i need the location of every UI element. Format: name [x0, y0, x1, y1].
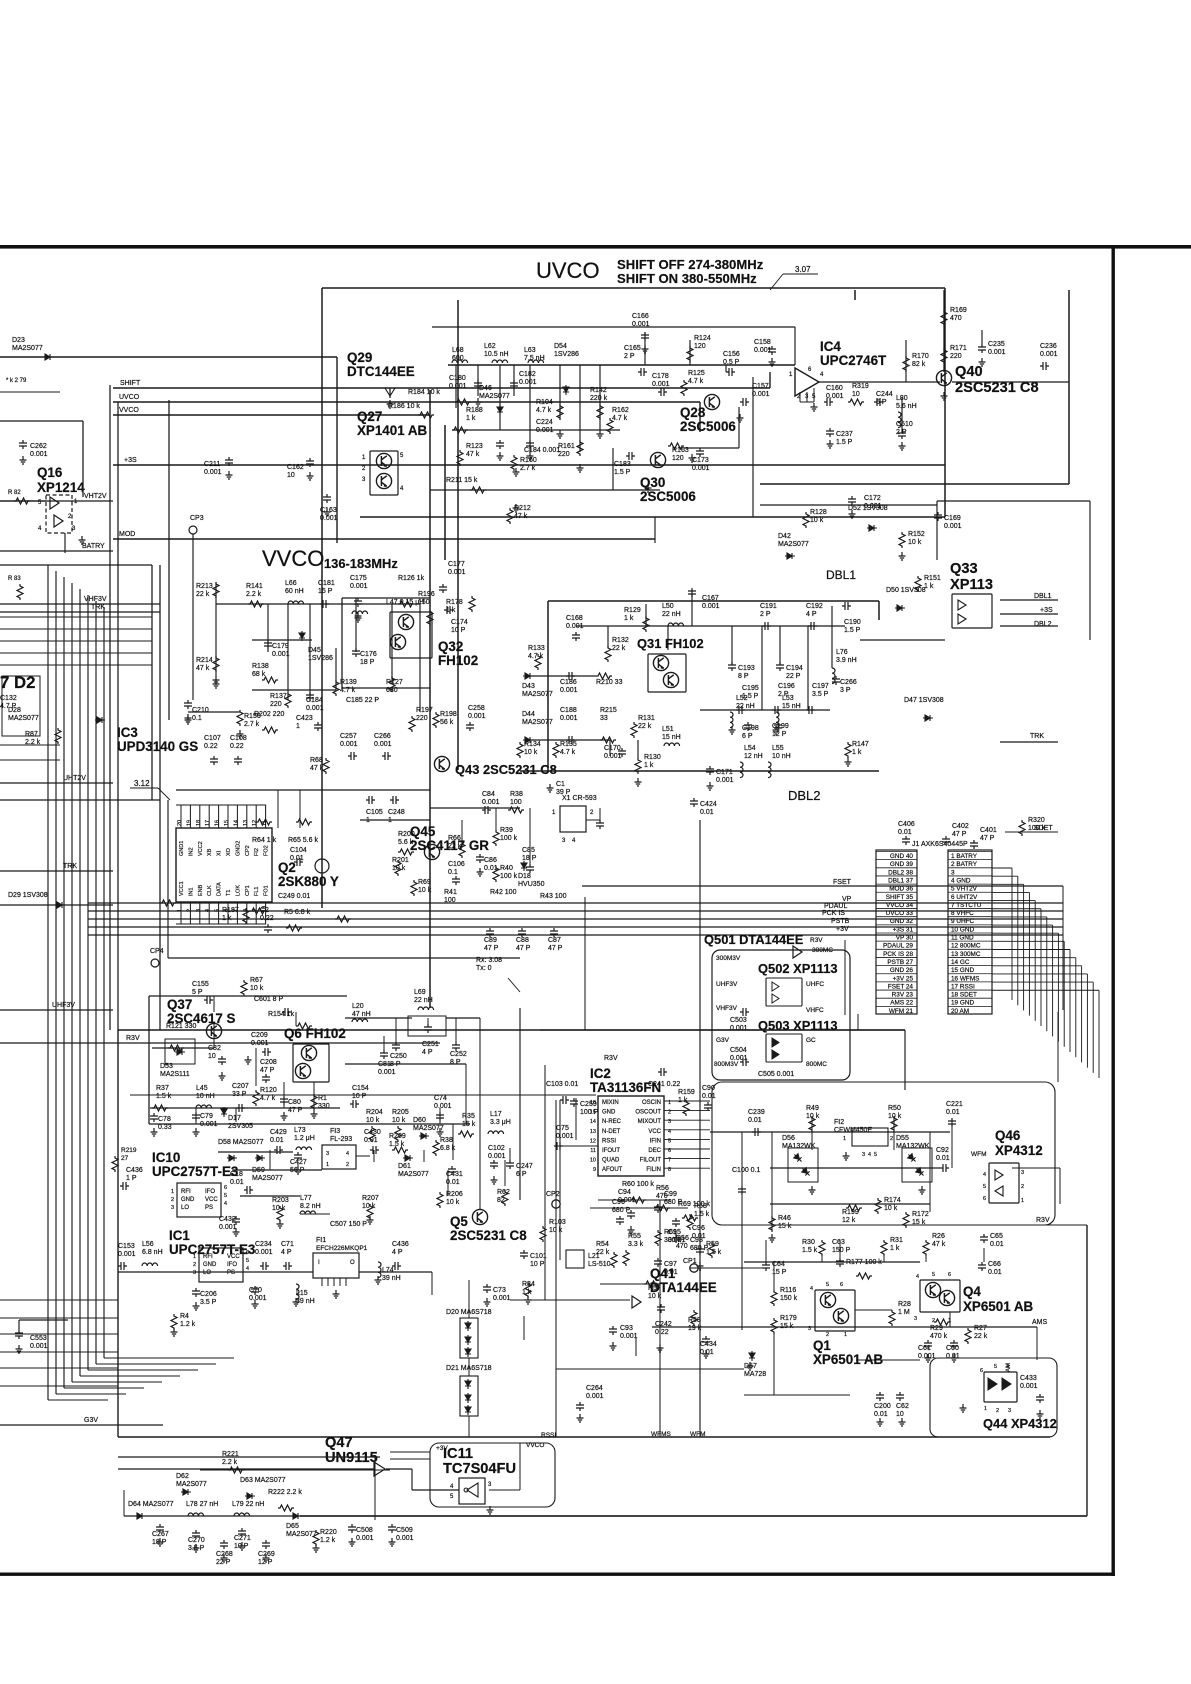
svg-text:10 k: 10 k: [446, 1199, 460, 1206]
svg-text:C183: C183: [614, 461, 631, 468]
svg-text:3.5 P: 3.5 P: [812, 691, 829, 698]
IC3 bottom pin wire: [199, 902, 201, 924]
svg-text:3.5 P: 3.5 P: [200, 1299, 217, 1306]
svg-text:DBL2: DBL2: [1034, 621, 1052, 628]
svg-text:L56: L56: [142, 1241, 154, 1248]
svg-text:4 P: 4 P: [806, 611, 817, 618]
svg-text:C188: C188: [560, 707, 577, 714]
svg-text:C165: C165: [624, 345, 641, 352]
ground C62: [899, 1418, 906, 1426]
svg-text:R203: R203: [272, 1197, 289, 1204]
svg-text:10: 10: [287, 472, 295, 479]
svg-text:47 P: 47 P: [260, 1067, 275, 1074]
svg-text:0.001: 0.001: [200, 1121, 218, 1128]
svg-text:C406: C406: [898, 821, 915, 828]
svg-text:L62: L62: [484, 343, 496, 350]
Q37 section box: [118, 1029, 905, 1031]
svg-text:4.7 k: 4.7 k: [536, 407, 552, 414]
svg-text:RSSI: RSSI: [602, 1138, 616, 1144]
svg-text:PDAUL 29: PDAUL 29: [883, 943, 913, 950]
svg-text:1.5 k: 1.5 k: [389, 1141, 405, 1148]
wire Q47 input: [118, 1468, 374, 1470]
svg-text:0.01: 0.01: [700, 1349, 714, 1356]
svg-text:T1: T1: [226, 890, 232, 896]
svg-text:C86: C86: [484, 857, 497, 864]
svg-text:LO: LO: [203, 1270, 211, 1276]
svg-text:R55: R55: [628, 1233, 641, 1240]
svg-text:VCC: VCC: [648, 1129, 661, 1135]
svg-text:VVCO: VVCO: [262, 546, 324, 571]
wire vertical x742: [741, 1132, 743, 1330]
ground Q40e: [941, 392, 948, 400]
svg-text:C208: C208: [260, 1059, 277, 1066]
Q32 box: [390, 612, 432, 658]
svg-text:C132: C132: [0, 695, 17, 702]
svg-text:0.001: 0.001: [350, 583, 368, 590]
svg-text:10 k: 10 k: [908, 539, 922, 546]
IC2 pin wire: [664, 1148, 710, 1150]
wire Q40 out to C236: [952, 381, 1069, 383]
svg-text:R188: R188: [466, 407, 483, 414]
svg-text:C190: C190: [844, 619, 861, 626]
svg-text:4: 4: [1006, 1364, 1009, 1370]
ground C224: [527, 452, 534, 460]
IC3 bottom pin wire: [208, 902, 210, 924]
svg-text:0.001: 0.001: [716, 777, 734, 784]
wire L20 row: [345, 1017, 412, 1019]
svg-text:C196: C196: [778, 683, 795, 690]
ground L74: [375, 1276, 382, 1284]
svg-text:R186 10 k: R186 10 k: [388, 403, 420, 410]
svg-text:MA2S077: MA2S077: [522, 719, 553, 726]
svg-text:MA2S077: MA2S077: [522, 691, 553, 698]
svg-text:D42: D42: [778, 533, 791, 540]
ground R28: [747, 1362, 754, 1370]
svg-text:22 nH: 22 nH: [414, 997, 433, 1004]
svg-text:AMS: AMS: [1032, 1319, 1048, 1326]
wire stub uvco: [689, 340, 691, 365]
ground C209: [245, 1056, 252, 1064]
svg-text:+3V: +3V: [836, 926, 849, 933]
svg-text:3: 3: [1008, 1408, 1011, 1414]
ground C172: [849, 510, 856, 518]
svg-text:10: 10: [896, 1411, 904, 1418]
svg-text:LOK: LOK: [235, 885, 241, 896]
svg-text:AFOUT: AFOUT: [602, 1167, 623, 1173]
svg-text:C234: C234: [255, 1241, 272, 1248]
svg-text:11 GND: 11 GND: [951, 935, 974, 942]
svg-text:1.5 P: 1.5 P: [844, 627, 861, 634]
svg-text:R170: R170: [912, 353, 929, 360]
svg-text:14: 14: [233, 820, 239, 826]
wire vertical x545: [544, 1065, 546, 1300]
svg-text:C209: C209: [251, 1032, 268, 1039]
svg-text:C98: C98: [690, 1237, 703, 1244]
ground Q44: [960, 1404, 967, 1412]
svg-text:Q502 XP1113: Q502 XP1113: [758, 961, 838, 976]
svg-text:39 P: 39 P: [556, 789, 571, 796]
svg-text:R202 220: R202 220: [254, 711, 284, 718]
svg-text:C186: C186: [560, 679, 577, 686]
svg-text:R104: R104: [536, 399, 553, 406]
svg-text:DBL1: DBL1: [1034, 593, 1052, 600]
svg-text:220: 220: [270, 701, 282, 708]
svg-text:17 RSSI: 17 RSSI: [951, 983, 975, 990]
ground C96: [697, 1262, 704, 1270]
svg-text:Q27: Q27: [357, 409, 382, 424]
svg-text:C177: C177: [448, 561, 465, 568]
svg-text:47 k: 47 k: [310, 765, 324, 772]
wire bottom long: [124, 1515, 1087, 1517]
svg-text:220: 220: [416, 715, 428, 722]
svg-text:RSSI: RSSI: [541, 1432, 556, 1439]
wire D20 top: [468, 1280, 470, 1318]
wire IC3 loop: [168, 957, 520, 959]
ground C61: [925, 1354, 932, 1362]
svg-text:1: 1: [326, 1162, 329, 1168]
svg-text:13: 13: [590, 1129, 596, 1135]
svg-text:L76: L76: [836, 649, 848, 656]
svg-text:0.01: 0.01: [230, 1179, 244, 1186]
svg-text:C262: C262: [30, 443, 47, 450]
svg-text:22 k: 22 k: [974, 1333, 988, 1340]
svg-text:0.001: 0.001: [219, 1224, 237, 1231]
ground C175: [355, 614, 362, 622]
svg-text:1SV286: 1SV286: [308, 655, 333, 662]
wire ic2 left: [559, 1100, 561, 1260]
svg-text:CP2: CP2: [245, 845, 251, 856]
Q31 npn b: [663, 672, 678, 687]
svg-text:GND: GND: [181, 1197, 195, 1203]
svg-text:2 P: 2 P: [778, 691, 789, 698]
svg-text:1.5 P: 1.5 P: [836, 439, 853, 446]
wire AMS rail: [652, 1326, 1037, 1328]
svg-text:5.6 nH: 5.6 nH: [896, 403, 917, 410]
resistor R42 sym: [250, 908, 266, 914]
svg-text:GND 40: GND 40: [890, 853, 914, 860]
svg-text:WFM: WFM: [690, 1431, 706, 1438]
wire vertical x585: [584, 897, 586, 1030]
ground C157: [737, 414, 744, 422]
svg-text:15: 15: [590, 1110, 596, 1116]
ground R160: [513, 468, 520, 476]
svg-text:7 D2: 7 D2: [0, 673, 35, 692]
svg-text:0.001: 0.001: [449, 383, 467, 390]
svg-text:C251: C251: [422, 1041, 439, 1048]
svg-text:R204: R204: [366, 1109, 383, 1116]
wire vertical Q5: [519, 1008, 521, 1200]
svg-text:R172: R172: [912, 1211, 929, 1218]
svg-text:19: 19: [186, 820, 192, 826]
svg-text:68 k: 68 k: [252, 671, 266, 678]
svg-text:R138: R138: [252, 663, 269, 670]
svg-text:PSTB: PSTB: [831, 918, 850, 925]
svg-text:12 800MC: 12 800MC: [951, 943, 981, 950]
svg-text:6: 6: [840, 1282, 843, 1288]
svg-text:22 k: 22 k: [638, 723, 652, 730]
ground q16: [79, 536, 86, 544]
left horizontal stubs: [0, 616, 152, 618]
svg-text:MA2S111: MA2S111: [160, 1071, 190, 1078]
svg-text:1 k: 1 k: [852, 749, 862, 756]
svg-text:10 k: 10 k: [524, 749, 538, 756]
wire audio rail top: [744, 1261, 920, 1263]
svg-text:0.001: 0.001: [692, 465, 710, 472]
svg-text:D17: D17: [228, 1115, 241, 1122]
svg-text:0.01: 0.01: [700, 809, 714, 816]
svg-text:4 P: 4 P: [392, 1249, 403, 1256]
svg-text:8 P: 8 P: [450, 1059, 461, 1066]
svg-text:4: 4: [916, 1274, 919, 1280]
svg-text:* k 2 79: * k 2 79: [6, 378, 27, 384]
IC3 bottom pin wire: [180, 902, 182, 924]
ground C93: [610, 1342, 617, 1350]
Q43 npn: [434, 756, 449, 771]
svg-text:R30: R30: [802, 1239, 815, 1246]
svg-text:CP4: CP4: [150, 948, 164, 955]
svg-text:C241 0.22: C241 0.22: [648, 1081, 680, 1088]
svg-text:0.001: 0.001: [730, 1055, 748, 1062]
svg-text:0.001: 0.001: [340, 741, 358, 748]
svg-text:C96: C96: [692, 1225, 705, 1232]
wire dbl1 out: [860, 639, 945, 641]
ground C102: [491, 1176, 498, 1184]
svg-text:2SC5231 C8: 2SC5231 C8: [450, 1228, 527, 1243]
svg-text:R69 100 k: R69 100 k: [678, 1201, 710, 1208]
ground C268: [221, 1554, 228, 1562]
wire stub uvco: [559, 365, 561, 420]
svg-text:C166: C166: [632, 313, 649, 320]
wire stub uvco: [513, 365, 515, 396]
svg-text:0.01: 0.01: [748, 1117, 762, 1124]
svg-text:TC7S04FU: TC7S04FU: [443, 1461, 516, 1477]
svg-text:C157: C157: [752, 383, 769, 390]
svg-text:C264: C264: [586, 1385, 603, 1392]
svg-text:47 k: 47 k: [932, 1241, 946, 1248]
svg-text:0.001: 0.001: [488, 1153, 506, 1160]
svg-text:R133: R133: [528, 645, 545, 652]
svg-text:C180: C180: [449, 375, 466, 382]
svg-text:3: 3: [914, 1316, 917, 1322]
svg-text:BATRY: BATRY: [82, 543, 105, 550]
svg-text:15 nH: 15 nH: [662, 734, 681, 741]
svg-text:47 nH: 47 nH: [352, 1011, 371, 1018]
svg-text:FL-293: FL-293: [330, 1136, 352, 1143]
svg-text:2 P: 2 P: [624, 353, 635, 360]
svg-text:3.12: 3.12: [134, 779, 150, 788]
ground R203: [277, 1220, 284, 1228]
svg-text:Q44 XP4312: Q44 XP4312: [983, 1416, 1057, 1431]
svg-text:C155: C155: [192, 981, 209, 988]
svg-text:G3V: G3V: [84, 1417, 98, 1424]
svg-text:1 M: 1 M: [898, 1309, 910, 1316]
svg-text:MA2S077: MA2S077: [252, 1175, 283, 1182]
wire right fan vertical: [1057, 1012, 1059, 1082]
svg-text:FH102: FH102: [438, 653, 478, 668]
svg-text:18: 18: [196, 820, 202, 826]
svg-text:C601 8 P: C601 8 P: [254, 996, 284, 1003]
wire FSET: [582, 885, 1063, 887]
svg-text:C79: C79: [200, 1113, 213, 1120]
svg-text:C504: C504: [730, 1047, 747, 1054]
svg-text:VP 30: VP 30: [896, 935, 914, 942]
svg-text:10 k: 10 k: [884, 1205, 898, 1212]
Q16 box: [46, 495, 72, 533]
IC3 bottom pin wire: [255, 902, 257, 924]
Q4 npn b: [939, 1290, 954, 1305]
svg-text:15: 15: [224, 820, 230, 826]
svg-text:C207: C207: [232, 1083, 249, 1090]
svg-text:R131: R131: [638, 715, 655, 722]
svg-text:100 k: 100 k: [500, 835, 518, 842]
svg-text:Q31 FH102: Q31 FH102: [637, 636, 704, 651]
svg-text:220: 220: [950, 353, 962, 360]
svg-text:GND 32: GND 32: [890, 918, 914, 925]
svg-text:10 P: 10 P: [451, 627, 466, 634]
wire bus turn bottom: [48, 1399, 108, 1401]
svg-text:R37: R37: [156, 1085, 169, 1092]
svg-text:47 P: 47 P: [516, 945, 531, 952]
svg-text:O: O: [350, 1260, 355, 1266]
svg-text:0.001: 0.001: [396, 1535, 414, 1542]
ground C432: [233, 1228, 240, 1236]
Q501 symbol: [793, 946, 802, 958]
svg-text:DBL2: DBL2: [788, 788, 821, 803]
wire CP1: [690, 1267, 764, 1269]
svg-text:1.2 μH: 1.2 μH: [294, 1135, 315, 1142]
svg-text:IFOUT: IFOUT: [602, 1148, 620, 1154]
svg-text:G3V: G3V: [716, 1037, 730, 1044]
svg-text:5: 5: [994, 1364, 997, 1370]
svg-text:0.001: 0.001: [752, 391, 770, 398]
svg-text:R134: R134: [524, 741, 541, 748]
ground C237: [827, 440, 834, 448]
svg-text:L20: L20: [352, 1003, 364, 1010]
resistor R41 sym: [160, 900, 176, 906]
svg-text:R66: R66: [448, 835, 461, 842]
Q32 npn a: [398, 614, 413, 629]
left partial section box: [151, 565, 153, 800]
svg-text:3: 3: [326, 1151, 329, 1157]
svg-text:4: 4: [246, 1266, 249, 1272]
svg-text:0.001: 0.001: [374, 741, 392, 748]
horizontal bus bundle: [88, 902, 1063, 904]
left bus main verticals: [109, 385, 111, 1030]
svg-text:R26: R26: [932, 1233, 945, 1240]
ground C210: [185, 716, 192, 724]
svg-text:C104: C104: [290, 847, 307, 854]
wire bus turn bottom: [104, 1357, 234, 1359]
svg-text:13 300MC: 13 300MC: [951, 951, 981, 958]
svg-text:R3V: R3V: [126, 1035, 140, 1042]
svg-text:Q41: Q41: [650, 1266, 676, 1281]
svg-text:GND: GND: [602, 1110, 616, 1116]
svg-text:5: 5: [246, 1258, 249, 1264]
wire WFMS vertical: [659, 1200, 661, 1437]
svg-text:+3V 25: +3V 25: [893, 975, 914, 982]
svg-text:1 k: 1 k: [624, 615, 634, 622]
svg-text:C247: C247: [516, 1163, 533, 1170]
svg-text:VVCO 34: VVCO 34: [886, 902, 913, 909]
svg-text:Q4: Q4: [963, 1284, 981, 1299]
svg-text:C80: C80: [288, 1099, 301, 1106]
svg-text:PS: PS: [227, 1270, 235, 1276]
svg-text:L68: L68: [452, 347, 464, 354]
ground C206: [193, 1302, 200, 1310]
IC3 bottom pin wire: [218, 902, 220, 924]
svg-text:C75: C75: [556, 1125, 569, 1132]
svg-text:2: 2: [193, 1262, 196, 1268]
svg-text:Q501 DTA144EE: Q501 DTA144EE: [704, 932, 804, 947]
svg-text:Q30: Q30: [640, 475, 665, 490]
svg-text:C248: C248: [388, 809, 405, 816]
svg-text:D43: D43: [522, 683, 535, 690]
DBL1 internals rails: [576, 625, 845, 627]
svg-text:C168: C168: [566, 615, 583, 622]
svg-text:1.5 P: 1.5 P: [742, 693, 759, 700]
svg-text:MA2S077: MA2S077: [176, 1481, 207, 1488]
wire if rail: [710, 1131, 950, 1133]
svg-text:R69: R69: [418, 879, 431, 886]
svg-text:IC3: IC3: [117, 725, 138, 740]
svg-text:OSCIN: OSCIN: [642, 1100, 661, 1106]
ground C180: [475, 398, 482, 406]
svg-text:0.001: 0.001: [378, 1069, 396, 1076]
svg-text:3: 3: [862, 1152, 865, 1158]
svg-text:UHT2V: UHT2V: [63, 775, 86, 782]
ground FI1: [333, 1290, 340, 1298]
ground C211: [226, 471, 233, 479]
svg-text:C210: C210: [192, 707, 209, 714]
svg-text:C249 0.01: C249 0.01: [278, 893, 310, 900]
svg-text:2: 2: [346, 1162, 349, 1168]
svg-text:UVCO 33: UVCO 33: [886, 910, 914, 917]
svg-text:PCK IS: PCK IS: [822, 910, 845, 917]
svg-text:R5 6.8 k: R5 6.8 k: [284, 909, 311, 916]
wire audio bottom: [744, 1394, 850, 1396]
wire Q28 box right: [738, 407, 740, 448]
ground R161: [577, 464, 584, 472]
svg-text:10 k: 10 k: [250, 985, 264, 992]
wire stub uvco: [529, 365, 531, 452]
IC3 top pin wire: [265, 805, 267, 828]
svg-text:0.001: 0.001: [519, 379, 537, 386]
svg-text:2.7 k: 2.7 k: [520, 465, 536, 472]
bottom enclosure lines: [118, 1436, 1050, 1438]
ground R130: [635, 778, 642, 786]
IC3 top pin wire: [199, 805, 201, 828]
ground IC11: [487, 1506, 494, 1514]
svg-text:20: 20: [177, 820, 183, 826]
ground L53: [773, 726, 780, 734]
svg-text:R126 1k: R126 1k: [398, 575, 425, 582]
svg-text:DBL1 37: DBL1 37: [888, 877, 913, 884]
wire IC4 pin6 up: [794, 327, 796, 365]
connector J1 right column: [948, 850, 992, 1014]
svg-text:PS: PS: [205, 1205, 213, 1211]
svg-text:D29 1SV308: D29 1SV308: [8, 892, 48, 899]
svg-text:R152: R152: [908, 531, 925, 538]
svg-text:R62: R62: [497, 1189, 510, 1196]
svg-text:47 P: 47 P: [548, 945, 563, 952]
svg-text:+3S: +3S: [124, 457, 137, 464]
svg-text:L74: L74: [382, 1267, 394, 1274]
svg-text:Tx: 0: Tx: 0: [476, 965, 492, 972]
svg-text:PCK IS 28: PCK IS 28: [883, 951, 913, 958]
svg-text:Q46: Q46: [995, 1128, 1020, 1143]
svg-text:R128: R128: [810, 509, 827, 516]
svg-text:14: 14: [590, 1119, 596, 1125]
